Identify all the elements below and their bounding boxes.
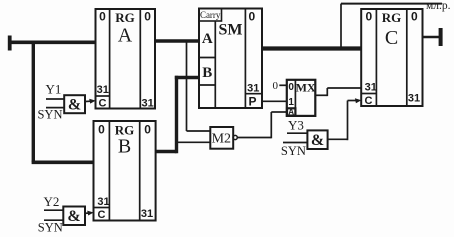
svg-text:SYN: SYN	[281, 144, 306, 158]
wire: Y2 output to RG B clock	[85, 211, 94, 216]
wire: top feedback (мл.р.)	[341, 4, 442, 49]
svg-text:0: 0	[288, 82, 294, 93]
svg-text:31: 31	[97, 196, 109, 208]
svg-text:31: 31	[97, 84, 109, 96]
svg-text:31: 31	[141, 208, 153, 220]
wire: RG B output bus to SM	[156, 76, 199, 154]
svg-text:0: 0	[273, 80, 279, 92]
wire: M2 output to MX select A	[237, 112, 286, 138]
gate Y2 AND	[63, 207, 85, 226]
input terminal left	[8, 36, 12, 51]
svg-text:SYN: SYN	[37, 108, 62, 122]
svg-text:0: 0	[99, 10, 106, 24]
multiplexer MX	[287, 80, 316, 117]
wire: RG A output to SM	[155, 39, 199, 42]
wire: input bus to RG A	[10, 40, 96, 44]
adder SM	[199, 9, 262, 109]
svg-text:0: 0	[411, 10, 418, 24]
svg-text:0: 0	[144, 10, 151, 24]
wire: MX output to RG C bit 31	[315, 88, 361, 96]
wire: Y1 output to RG A clock	[85, 99, 96, 104]
svg-text:A: A	[288, 108, 294, 117]
svg-text:B: B	[202, 65, 212, 81]
svg-text:1: 1	[288, 97, 294, 108]
wire: Y3 inputs	[283, 133, 307, 142]
gate Y1 AND	[64, 95, 85, 113]
svg-text:&: &	[311, 132, 324, 149]
svg-text:0: 0	[144, 123, 151, 137]
svg-text:C: C	[98, 209, 106, 221]
node constant 0 input	[273, 80, 287, 92]
wire: tap from B bus to M2	[178, 141, 210, 143]
svg-text:MX: MX	[296, 80, 316, 94]
wire: bus into RG B	[32, 161, 95, 165]
wire: bus branch down	[32, 41, 35, 163]
register RG C	[361, 9, 422, 107]
svg-text:31: 31	[141, 98, 153, 110]
wire: SM P output to MX input 1	[262, 100, 287, 102]
svg-text:P: P	[248, 95, 256, 109]
svg-text:RG: RG	[115, 10, 135, 25]
svg-text:0: 0	[98, 123, 105, 137]
register RG A	[96, 9, 156, 110]
svg-text:M2: M2	[212, 132, 231, 147]
svg-text:Carry: Carry	[200, 10, 221, 20]
gate M2	[210, 127, 237, 149]
output terminal right	[439, 28, 443, 46]
svg-text:31: 31	[247, 83, 259, 95]
svg-text:C: C	[365, 95, 373, 107]
wire: RG C output	[423, 36, 440, 38]
svg-text:&: &	[67, 208, 80, 225]
svg-text:RG: RG	[382, 10, 402, 25]
svg-text:0: 0	[248, 10, 255, 24]
svg-text:A: A	[202, 31, 213, 47]
svg-text:0: 0	[365, 10, 372, 24]
svg-text:мл.р.: мл.р.	[426, 0, 451, 12]
wire: tap from A bus to M2	[187, 41, 211, 131]
svg-text:31: 31	[365, 82, 377, 94]
wire: Y2 inputs	[44, 210, 63, 220]
svg-text:SYN: SYN	[38, 221, 63, 235]
svg-text:Y1: Y1	[46, 82, 62, 97]
wire: Y3 output to RG C clock	[328, 98, 362, 140]
svg-text:Y3: Y3	[288, 118, 304, 133]
svg-text:Y2: Y2	[44, 194, 60, 209]
wire: Y1 inputs	[46, 99, 64, 108]
svg-text:&: &	[68, 97, 81, 114]
svg-text:31: 31	[408, 93, 420, 105]
svg-text:A: A	[118, 25, 133, 47]
wire: SM result bus to RG C	[262, 46, 361, 50]
register RG B	[94, 121, 156, 221]
svg-text:C: C	[385, 27, 398, 49]
svg-text:SM: SM	[219, 22, 243, 39]
svg-text:B: B	[118, 136, 131, 158]
svg-text:C: C	[99, 98, 107, 110]
gate Y3 AND	[307, 130, 327, 149]
